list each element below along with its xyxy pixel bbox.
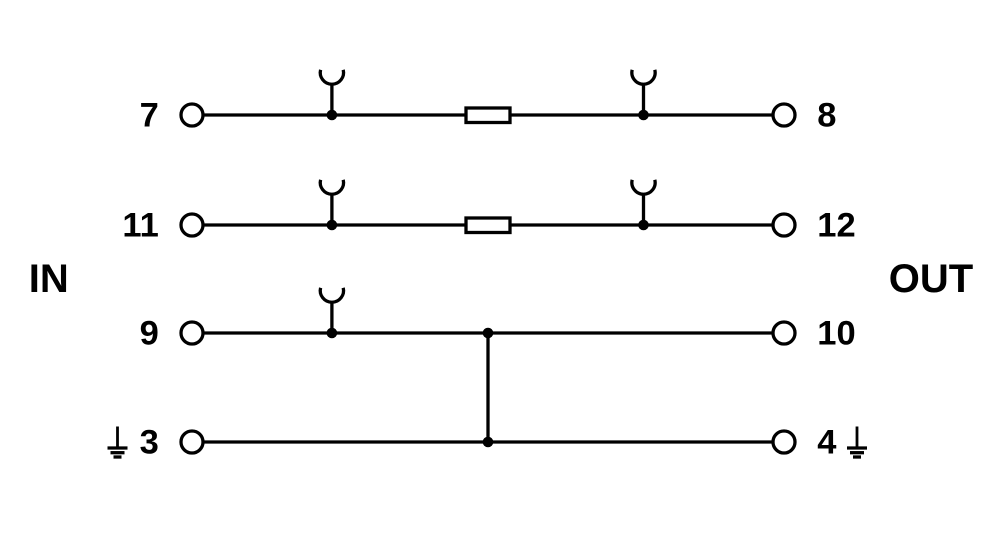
svg-text:7: 7 xyxy=(140,97,159,135)
svg-text:9: 9 xyxy=(140,315,159,353)
svg-text:OUT: OUT xyxy=(889,257,973,301)
svg-text:3: 3 xyxy=(140,424,159,462)
svg-text:11: 11 xyxy=(122,207,158,245)
svg-text:IN: IN xyxy=(29,257,69,301)
svg-text:12: 12 xyxy=(817,207,855,245)
svg-text:8: 8 xyxy=(817,97,836,135)
svg-text:10: 10 xyxy=(817,315,855,353)
svg-text:4: 4 xyxy=(817,424,836,462)
